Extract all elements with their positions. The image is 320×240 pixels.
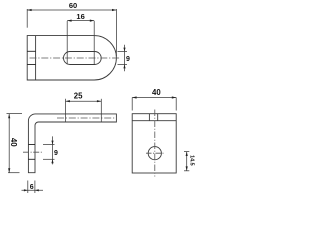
dim 40 (front) arrowhead right (172, 96, 176, 98)
dim 9 (slot width) extension line upper (118, 51, 128, 53)
top view hole projection line lower (27, 64, 35, 66)
dim 14.5 T-bar top (184, 151, 189, 153)
top view centerline (30, 57, 120, 59)
dim 9 (hole dia) arrowhead lower (outside) (51, 159, 53, 163)
side view hole edge line lower (28, 158, 35, 160)
dim 6 arrowhead left (outside) (24, 189, 28, 191)
svg-text:60: 60 (69, 1, 77, 10)
dim 16 extension line left (66, 21, 68, 65)
svg-text:40: 40 (9, 138, 18, 147)
side view hole centerline (23, 151, 43, 153)
dim 9 (slot width) dimension line (124, 45, 126, 72)
dim 40 (side) dimension line (8, 114, 10, 173)
dim 40 (side) arrowhead top (8, 114, 10, 118)
dim 40 (front) dimension line (132, 97, 176, 99)
top view outline (plan of bracket, rounded right end) (27, 36, 116, 80)
dim 25 arrowhead right (97, 100, 101, 102)
front view rectangle (132, 114, 176, 173)
dim 40 (front) extension line left (131, 98, 133, 111)
dim 40 (side) arrowhead bottom (8, 168, 10, 172)
svg-text:9: 9 (54, 150, 58, 157)
side view horizontal leg centerline (57, 117, 117, 119)
dim 25 arrowhead left (66, 100, 70, 102)
dim 9 (hole dia) extension line upper (43, 144, 55, 146)
svg-text:9: 9 (126, 56, 130, 63)
front view vertical centerline (154, 110, 156, 177)
dim 9 (hole dia) extension line lower (43, 158, 55, 160)
slot (obround) in top view (64, 52, 102, 65)
front view hole circle (148, 147, 161, 160)
dim 16 arrowhead right (90, 20, 94, 22)
dim 60 extension line right (115, 9, 117, 56)
svg-text:6: 6 (30, 184, 34, 191)
dim 9 (slot width) extension line lower (118, 64, 128, 66)
dim 9 arrowhead lower (outside, pointing up) (123, 65, 125, 69)
front view slot edge left (148, 114, 150, 121)
dim 16 dimension line (67, 20, 94, 22)
dim 9 (hole dia) dimension line (52, 136, 54, 164)
dim 40 (side) extension line top (7, 113, 23, 115)
side view L-bracket outline (28, 114, 116, 173)
dim 16 arrowhead left (67, 20, 71, 22)
dim 9 (hole dia) arrowhead upper (outside) (51, 141, 53, 145)
svg-text:16: 16 (76, 12, 84, 21)
dim 6 arrowhead right (outside) (35, 189, 39, 191)
front view bend line (132, 120, 176, 122)
top view hole projection line upper (27, 50, 35, 52)
dim 6 dimension line (22, 189, 44, 191)
svg-text:40: 40 (152, 88, 161, 97)
dim 16 extension line right (93, 21, 95, 65)
top view bend line (35, 36, 37, 80)
front view slot edge right (157, 114, 159, 121)
front view horizontal centerline (146, 152, 164, 154)
svg-text:14.5: 14.5 (188, 155, 194, 166)
dim 60 extension line left (26, 9, 28, 28)
dim 60 arrowhead right (112, 9, 116, 11)
dim 25 dimension line (66, 100, 102, 102)
dim 14.5 T-bar bottom (184, 170, 189, 172)
dim 40 (front) arrowhead left (132, 96, 136, 98)
dim 25 extension line right (100, 99, 102, 122)
dim 25 extension line left (65, 99, 67, 122)
dim 14.5 arrowhead top (186, 152, 188, 156)
dim 14.5 arrowhead bottom (186, 166, 188, 170)
dim 40 (front) extension line right (175, 98, 177, 111)
dim 60 arrowhead left (27, 9, 31, 11)
dim 14.5 dimension line (186, 152, 188, 171)
side view hole edge line upper (28, 144, 35, 146)
dim 6 extension line left (27, 181, 29, 194)
svg-text:25: 25 (74, 92, 83, 101)
dim 6 extension line right (34, 181, 36, 194)
dim 9 arrowhead upper (outside, pointing down) (123, 48, 125, 52)
dim 40 (side) extension line bottom (8, 172, 20, 174)
dim 60 dimension line (27, 9, 116, 11)
